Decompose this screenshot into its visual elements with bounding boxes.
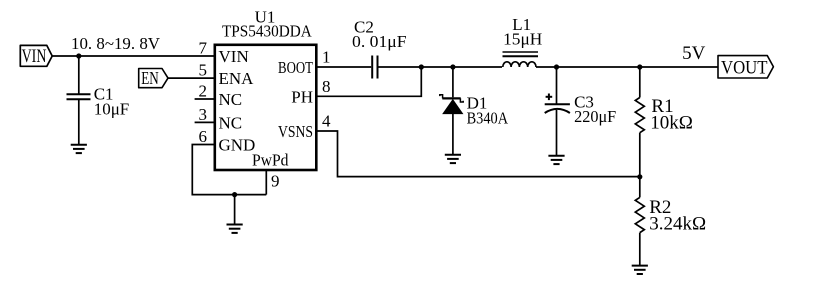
svg-text:9: 9 (271, 172, 280, 191)
resistor R1 (635, 98, 644, 133)
ground R2 (632, 266, 648, 274)
svg-text:220μF: 220μF (574, 107, 616, 126)
svg-text:NC: NC (219, 90, 243, 109)
wire R2 to ground (639, 233, 641, 266)
wire switch node to D1 (452, 67, 454, 97)
port EN (139, 68, 168, 88)
wire junction to chip ground (234, 195, 236, 225)
svg-text:15μH: 15μH (503, 30, 542, 49)
pin 2 stub (195, 98, 214, 100)
inductor L1 (503, 52, 539, 67)
wire PH pin to switch node (318, 67, 422, 96)
svg-text:5: 5 (199, 61, 208, 80)
IC U1 TPS5430DDA body (215, 45, 316, 170)
diode D1 schottky (440, 95, 463, 114)
capacitor C3 polarized (545, 94, 570, 114)
svg-text:0. 01μF: 0. 01μF (352, 32, 407, 51)
wire C3 to ground (556, 110, 558, 156)
junction C3 tap (554, 64, 559, 69)
svg-text:GND: GND (219, 136, 256, 155)
svg-text:10. 8~19. 8V: 10. 8~19. 8V (71, 34, 161, 53)
svg-text:1: 1 (322, 48, 331, 67)
svg-text:EN: EN (141, 68, 159, 88)
wire EN to U1 pin5 (168, 77, 214, 79)
svg-text:PwPd: PwPd (252, 151, 289, 170)
wire C1 to ground (78, 99, 80, 144)
svg-text:VIN: VIN (22, 46, 47, 67)
ground C3 (548, 156, 564, 164)
port VIN (20, 45, 52, 67)
wire C2 to switch node (379, 66, 503, 68)
junction ground net (232, 192, 237, 197)
pin 9 stub (265, 171, 267, 195)
junction D1 tap (450, 64, 455, 69)
wire output node to C3 (556, 67, 558, 104)
svg-text:7: 7 (199, 39, 208, 58)
svg-text:TPS5430DDA: TPS5430DDA (222, 22, 312, 41)
wire VSNS to feedback node (318, 131, 640, 177)
ground U1 (227, 225, 243, 233)
pin 3 stub (195, 121, 214, 123)
port VOUT (718, 56, 773, 79)
ground C1 (71, 145, 87, 153)
svg-text:2: 2 (199, 82, 208, 101)
svg-text:VSNS: VSNS (278, 122, 313, 141)
svg-text:VIN: VIN (219, 47, 249, 66)
svg-text:10μF: 10μF (94, 100, 130, 119)
svg-text:VOUT: VOUT (721, 57, 768, 78)
svg-text:10kΩ: 10kΩ (650, 112, 693, 133)
svg-text:4: 4 (322, 112, 331, 131)
svg-text:3: 3 (199, 105, 208, 124)
wire input to C1 (78, 56, 80, 94)
junction output/R1 (637, 64, 642, 69)
junction input node (76, 53, 81, 58)
wire GND pin to pad net (192, 145, 266, 195)
svg-text:ENA: ENA (219, 69, 255, 88)
ground D1 (445, 155, 461, 163)
wire BOOT to C2 (318, 66, 372, 68)
svg-text:5V: 5V (682, 43, 706, 64)
wire feedback node to R2 (639, 177, 641, 198)
svg-text:NC: NC (219, 113, 243, 132)
svg-text:BOOT: BOOT (278, 58, 313, 77)
wire output node to R1 (639, 67, 641, 98)
svg-text:3.24kΩ: 3.24kΩ (649, 214, 706, 235)
wire D1 to ground (452, 114, 454, 155)
capacitor C2 (372, 56, 377, 79)
wire L1 to output node (536, 66, 718, 68)
capacitor C1 (67, 94, 91, 99)
junction C2/PH (419, 64, 424, 69)
wire VIN to U1 pin7 (52, 55, 213, 57)
wire R1 to feedback node (639, 133, 641, 177)
svg-text:PH: PH (291, 87, 313, 106)
svg-text:B340A: B340A (467, 109, 509, 128)
resistor R2 (635, 197, 644, 232)
svg-text:6: 6 (199, 127, 208, 146)
junction feedback node (637, 174, 642, 179)
svg-text:8: 8 (322, 77, 331, 96)
